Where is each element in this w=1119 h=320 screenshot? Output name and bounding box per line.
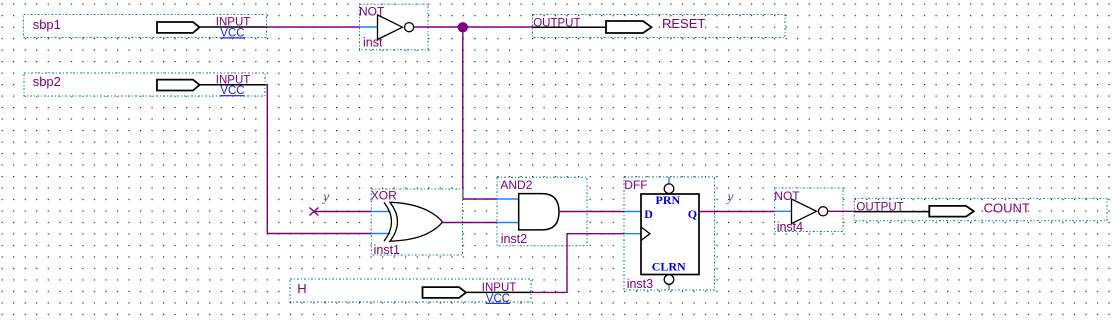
svg-text:H: H [297,281,306,296]
svg-text:NOT: NOT [359,5,385,19]
svg-text:VCC: VCC [220,27,244,39]
svg-text:y: y [321,189,329,204]
output pin COUNT [854,198,1107,220]
svg-text:VCC: VCC [220,85,244,97]
svg-text:OUTPUT: OUTPUT [533,17,580,29]
node y (unconnected cross) [310,189,330,215]
wire sbp1 to NOT inst [266,26,360,28]
wire NOT inst4 output to COUNT output [828,210,855,212]
NOT gate inst4 [774,188,843,234]
wire sbp2 down to XOR lower input [265,85,371,234]
NOT gate inst [359,4,428,50]
svg-text:inst3: inst3 [627,277,653,291]
input pin H [290,279,531,305]
svg-text:CLRN: CLRN [652,260,686,274]
wire XOR output to AND2 lower input [443,222,498,224]
svg-text:sbp2: sbp2 [33,74,61,89]
svg-text:y: y [726,189,734,204]
svg-text:COUNT: COUNT [984,201,1030,216]
input pin sbp2 [24,73,265,97]
wire H to DFF clock input [531,234,624,293]
input pin sbp1 [24,15,267,40]
svg-text:inst2: inst2 [501,232,527,246]
svg-text:XOR: XOR [371,189,397,203]
svg-text:inst1: inst1 [374,243,400,257]
svg-text:RESET: RESET [662,16,705,31]
junction node [458,22,468,32]
wire NOT inst output to junction and RESET output [414,26,533,28]
svg-text:sbp1: sbp1 [33,17,61,32]
svg-text:OUTPUT: OUTPUT [856,202,903,214]
svg-text:Q: Q [688,207,697,221]
wire AND2 output to DFF D input [559,211,624,213]
svg-text:inst: inst [363,36,383,50]
DFF inst3 [624,177,715,291]
svg-text:PRN: PRN [656,193,681,207]
svg-text:NOT: NOT [774,189,800,203]
output pin RESET [533,15,786,38]
svg-text:AND2: AND2 [500,178,532,192]
wire node y to XOR upper input [314,211,371,213]
node y label at DFF Q output [726,189,734,204]
wire DFF Q to NOT inst4 [699,211,775,213]
svg-text:D: D [644,207,653,221]
svg-text:DFF: DFF [624,178,647,192]
AND2 gate inst2 [497,177,587,246]
XOR gate inst1 [371,189,463,258]
svg-text:VCC: VCC [486,293,510,305]
svg-text:inst4: inst4 [777,220,803,234]
wire junction down to AND2 top input [463,27,497,199]
